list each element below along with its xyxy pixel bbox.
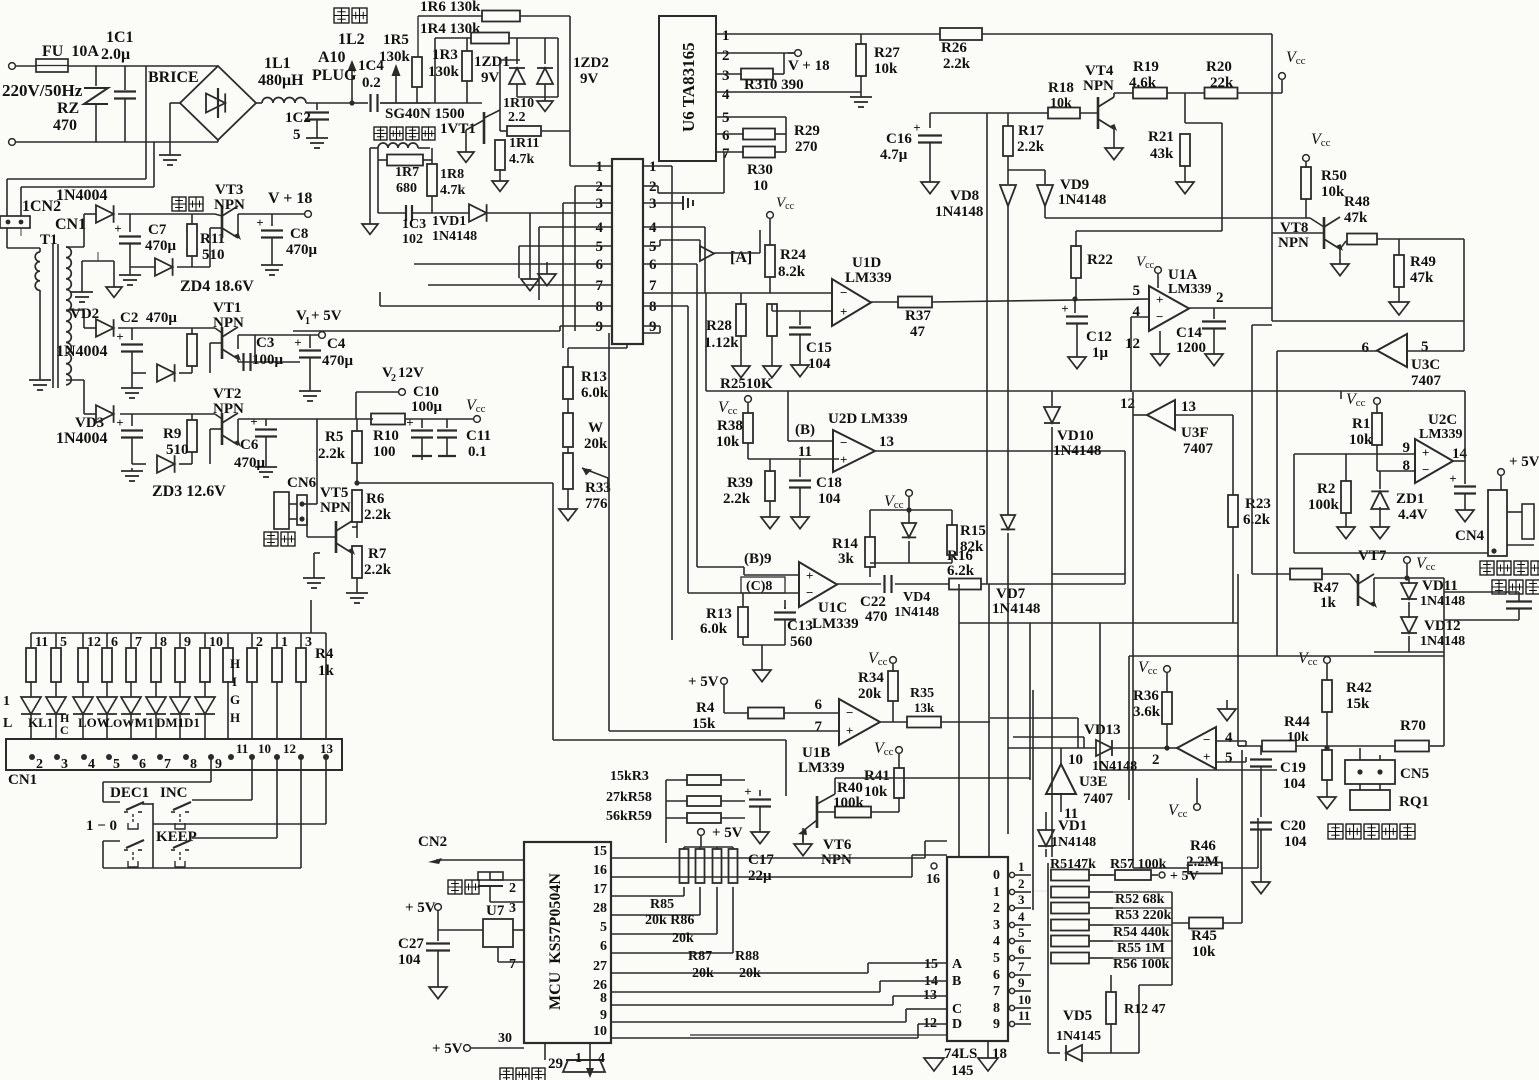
wire U3E in xyxy=(1060,794,1062,812)
svg-text:3k: 3k xyxy=(838,551,855,567)
diode VD10 xyxy=(1044,407,1101,857)
svg-text:+: + xyxy=(1061,301,1068,316)
label Vcc U1A xyxy=(1136,254,1155,271)
wire Lpin7 xyxy=(428,284,612,286)
node Vcc top right xyxy=(1279,49,1306,79)
wire R13b C13 join xyxy=(743,645,785,682)
svg-text:6.0k: 6.0k xyxy=(581,385,609,401)
node Vcc R38 xyxy=(718,396,751,417)
svg-text:LM339: LM339 xyxy=(812,616,859,632)
svg-text:−: − xyxy=(1203,732,1210,747)
svg-text:20k: 20k xyxy=(584,436,608,452)
svg-text:1: 1 xyxy=(575,1051,582,1066)
svg-text:NPN: NPN xyxy=(213,315,244,331)
resistor 1R5 130k xyxy=(379,32,422,103)
node +5V pin30 xyxy=(432,1031,524,1057)
svg-text:R53 220k: R53 220k xyxy=(1115,908,1172,923)
svg-text:27kR58: 27kR58 xyxy=(606,790,652,805)
svg-text:+: + xyxy=(406,415,413,430)
IC U7b xyxy=(483,903,524,947)
svg-text:R7: R7 xyxy=(368,546,387,562)
capacitor C5 470u xyxy=(116,414,143,481)
svg-text:R29: R29 xyxy=(794,123,820,139)
resistor R53 xyxy=(1051,903,1113,914)
svg-text:VT4: VT4 xyxy=(1085,63,1114,79)
svg-text:D: D xyxy=(952,1017,962,1032)
svg-text:R48: R48 xyxy=(1344,194,1370,210)
capacitor C4 470u xyxy=(294,335,353,401)
capacitor C8 470u xyxy=(256,214,317,275)
capacitor 1C1 2.0u xyxy=(101,29,136,142)
wire x985 xyxy=(986,113,988,584)
svg-text:C15: C15 xyxy=(806,340,832,356)
svg-text:G: G xyxy=(230,692,240,707)
svg-text:C20: C20 xyxy=(1280,818,1306,834)
svg-text:8.2k: 8.2k xyxy=(778,264,806,280)
op-amp U3E 7407 xyxy=(1046,752,1114,822)
resistor R4 element 8 xyxy=(200,633,223,682)
wire VT4 col xyxy=(1114,93,1133,97)
connector CN4 xyxy=(1488,490,1534,556)
svg-text:510: 510 xyxy=(166,442,189,458)
svg-text:2.2k: 2.2k xyxy=(364,562,392,578)
CN1 pin 301 xyxy=(298,754,304,760)
wire Rr 941 xyxy=(1089,940,1172,942)
node V+18 term2 xyxy=(788,50,830,74)
label current-sense xyxy=(374,127,435,140)
svg-text:W: W xyxy=(588,420,603,436)
svg-text:VD7: VD7 xyxy=(996,586,1026,602)
resistor R4 15k xyxy=(692,685,839,735)
label V2 12V xyxy=(382,365,424,384)
capacitor C13 560 xyxy=(774,600,813,650)
wire U6 pin1 xyxy=(716,28,940,44)
svg-text:4: 4 xyxy=(993,934,1000,949)
svg-text:R13: R13 xyxy=(706,606,732,622)
node Vcc R1 xyxy=(1346,391,1380,409)
svg-text:−: − xyxy=(840,285,847,300)
svg-text:0.2: 0.2 xyxy=(362,75,381,91)
svg-text:1200: 1200 xyxy=(1176,340,1206,356)
wire R15 bottom xyxy=(870,551,952,563)
svg-text:1N4148: 1N4148 xyxy=(1058,192,1106,208)
svg-text:FU 10A: FU 10A xyxy=(42,43,99,60)
wire R bus right2 xyxy=(1139,985,1172,1053)
diode VD2 1N4004 xyxy=(56,306,114,360)
svg-text:−: − xyxy=(1156,309,1163,324)
svg-text:+: + xyxy=(256,215,263,230)
svg-text:R19: R19 xyxy=(1133,59,1159,75)
wire mesh a xyxy=(959,622,1238,624)
wire 1R6 down xyxy=(569,16,571,166)
svg-text:5: 5 xyxy=(1018,925,1025,940)
wire mcu8 xyxy=(611,996,920,1005)
svg-text:8: 8 xyxy=(160,635,167,650)
svg-text:Vcc: Vcc xyxy=(1138,659,1158,677)
LED 6 xyxy=(146,682,166,739)
svg-text:H: H xyxy=(230,710,240,725)
svg-text:C10: C10 xyxy=(413,384,439,400)
svg-text:5: 5 xyxy=(596,239,604,255)
svg-text:4.4V: 4.4V xyxy=(1398,507,1428,523)
svg-text:6: 6 xyxy=(815,697,823,713)
resistor R58 27k xyxy=(606,790,745,806)
svg-text:Vcc: Vcc xyxy=(718,399,738,417)
svg-text:VD1: VD1 xyxy=(1058,818,1087,834)
svg-text:10k: 10k xyxy=(1321,184,1345,200)
svg-text:4: 4 xyxy=(598,1051,605,1066)
svg-text:104: 104 xyxy=(1283,776,1306,792)
resistor R5 2.2k xyxy=(318,419,362,483)
op-amp U2A xyxy=(1177,727,1233,769)
wire LED top rail xyxy=(31,600,326,739)
ground VT6 xyxy=(794,828,812,856)
wire sec to VD2row xyxy=(66,310,96,328)
svg-text:7: 7 xyxy=(135,635,142,650)
svg-text:1R6 130k: 1R6 130k xyxy=(420,0,481,15)
wire R14 R15 rail xyxy=(870,510,952,525)
svg-text:VD9: VD9 xyxy=(1060,177,1089,193)
svg-text:+: + xyxy=(1156,292,1163,307)
wire mesh b xyxy=(1029,623,1031,780)
svg-text:16: 16 xyxy=(593,863,607,878)
label pin R7 xyxy=(649,278,657,294)
node Vcc U1C xyxy=(884,490,912,513)
svg-text:MCU KS57P0504N: MCU KS57P0504N xyxy=(547,873,564,1010)
svg-text:13k: 13k xyxy=(914,700,935,715)
svg-text:47: 47 xyxy=(910,324,926,340)
wire U1B plus xyxy=(609,333,839,731)
svg-text:U7: U7 xyxy=(486,903,505,919)
resistor R29 270 xyxy=(743,117,820,155)
transistor VT4 xyxy=(1083,63,1117,131)
svg-text:9: 9 xyxy=(184,635,191,650)
svg-text:+ 5V: + 5V xyxy=(432,1041,463,1057)
svg-text:C12: C12 xyxy=(1086,329,1112,345)
svg-text:1N4148: 1N4148 xyxy=(432,229,477,244)
svg-text:R10: R10 xyxy=(373,428,399,444)
svg-text:R54 440k: R54 440k xyxy=(1113,925,1170,940)
svg-text:1N4004: 1N4004 xyxy=(56,187,108,204)
svg-text:R5: R5 xyxy=(325,429,343,445)
svg-text:12: 12 xyxy=(283,741,296,756)
wire V1 rail xyxy=(254,335,256,362)
wire box q2 xyxy=(1128,656,1130,800)
svg-text:R26: R26 xyxy=(941,40,967,56)
varistor RZ 470 xyxy=(53,66,108,142)
wire to node xyxy=(306,102,352,104)
resistor R39 2.2k xyxy=(723,459,779,529)
diode VD7 sym xyxy=(1001,515,1015,834)
svg-text:1N4004: 1N4004 xyxy=(56,430,108,447)
label R51 R57 xyxy=(1050,857,1167,872)
resistor R55 xyxy=(1051,936,1113,947)
svg-text:R40: R40 xyxy=(837,780,863,796)
thermistor RQ1 xyxy=(1350,784,1429,810)
svg-text:0: 0 xyxy=(993,868,1000,883)
capacitor C18 104 xyxy=(789,459,842,529)
svg-text:1C2: 1C2 xyxy=(285,110,311,126)
svg-text:4: 4 xyxy=(88,757,95,772)
wire mcu26 xyxy=(611,981,920,992)
wire U1A gnd12 xyxy=(1125,331,1169,366)
label pin L4 xyxy=(596,220,604,236)
wire mcu15 xyxy=(611,841,947,858)
CN1 pin 8 xyxy=(183,754,197,772)
svg-text:C17: C17 xyxy=(748,852,774,868)
wire key sw1 stubs xyxy=(142,803,153,805)
op-amp U2C LM339 xyxy=(1403,412,1468,483)
node Vcc VT7 xyxy=(1404,555,1436,581)
wire Lpin6 xyxy=(414,263,612,265)
connector middle block xyxy=(612,159,643,344)
diode VD1 1N4148 xyxy=(1038,812,1096,857)
label pin R8 xyxy=(649,299,657,315)
wire Rpin3 xyxy=(643,196,693,210)
svg-text:11: 11 xyxy=(798,444,812,460)
wire VT4 base row xyxy=(930,112,1048,114)
svg-text:130k: 130k xyxy=(379,49,411,65)
svg-text:Vcc: Vcc xyxy=(1346,391,1366,409)
buffer [A] xyxy=(700,246,752,266)
capacitor C14 1200 xyxy=(1176,308,1226,366)
svg-text:28: 28 xyxy=(593,901,607,916)
svg-text:L: L xyxy=(3,716,12,731)
resistor R22 xyxy=(1071,231,1113,299)
svg-text:+: + xyxy=(1203,749,1210,764)
wire AC line bottom xyxy=(15,141,218,143)
svg-text:10: 10 xyxy=(258,741,271,756)
wire U2A in4 xyxy=(1216,741,1246,746)
svg-text:+ 5V: + 5V xyxy=(1170,869,1199,884)
wire vert 640 xyxy=(639,659,641,661)
pin 74LS 2 xyxy=(993,892,1031,916)
pin 74LS 3 xyxy=(993,909,1031,933)
capacitor C15 104 xyxy=(789,311,832,377)
svg-text:1: 1 xyxy=(596,159,604,175)
wire U6 pin5 xyxy=(716,110,786,126)
op-amp U2D LM339 xyxy=(828,411,908,472)
wire Rpin9 xyxy=(643,326,660,333)
svg-text:+: + xyxy=(806,568,813,583)
svg-text:1N4148: 1N4148 xyxy=(1092,759,1137,774)
node C10 terminal xyxy=(356,384,443,419)
svg-text:R24: R24 xyxy=(780,247,806,263)
svg-text:2.0μ: 2.0μ xyxy=(101,46,130,63)
svg-text:145: 145 xyxy=(951,1063,974,1079)
svg-text:6: 6 xyxy=(139,757,146,772)
wire R4 down 252 xyxy=(251,682,253,739)
svg-text:C2 470μ: C2 470μ xyxy=(120,310,177,326)
label 1-0 xyxy=(86,818,117,834)
svg-text:RQ1: RQ1 xyxy=(1399,794,1429,810)
diode VD3 1N4004 xyxy=(56,405,114,447)
wire mcu10 xyxy=(611,1024,920,1038)
node Vcc terminal xyxy=(466,397,486,422)
label coil 1L2 xyxy=(334,8,367,48)
wire U2C out xyxy=(1453,391,1465,484)
svg-text:VD4: VD4 xyxy=(903,590,930,605)
svg-text:3: 3 xyxy=(993,918,1000,933)
node AC terminal 2 xyxy=(9,139,16,146)
svg-text:R4: R4 xyxy=(315,646,334,662)
ground VT8 e xyxy=(1331,249,1349,276)
label VD8 xyxy=(935,188,983,220)
svg-text:R52 68k: R52 68k xyxy=(1115,892,1165,907)
svg-text:2: 2 xyxy=(509,881,516,896)
svg-text:18: 18 xyxy=(992,1046,1007,1062)
svg-text:R55 1M: R55 1M xyxy=(1117,941,1165,956)
svg-text:9V: 9V xyxy=(580,71,599,87)
wire mesh f xyxy=(1051,391,1053,406)
svg-text:NPN: NPN xyxy=(320,500,351,516)
resistor R19 4.6k xyxy=(1129,59,1204,99)
wire AC line top xyxy=(15,65,218,67)
svg-text:10k: 10k xyxy=(874,61,898,77)
CN1 pin 3 xyxy=(54,754,68,772)
svg-text:22μ: 22μ xyxy=(748,868,772,884)
svg-text:R44: R44 xyxy=(1284,714,1310,730)
capacitor C22 470 xyxy=(860,575,949,625)
label MCU pin 28 xyxy=(593,901,607,916)
label fan xyxy=(264,532,295,546)
svg-text:R30: R30 xyxy=(747,162,773,178)
wire VT3 base xyxy=(210,228,222,267)
svg-text:VT1: VT1 xyxy=(213,300,241,316)
svg-text:T1: T1 xyxy=(40,232,58,248)
wire VT2 base xyxy=(210,429,222,464)
svg-text:NPN: NPN xyxy=(1083,78,1114,94)
resistor R4 element 1 xyxy=(26,633,48,682)
svg-text:6: 6 xyxy=(600,939,607,954)
node Vcc VT8 xyxy=(1303,131,1331,161)
svg-text:R14: R14 xyxy=(832,536,858,552)
svg-text:1: 1 xyxy=(1018,859,1025,874)
svg-text:R56 100k: R56 100k xyxy=(1113,957,1170,972)
CN1 pin 6 xyxy=(132,754,146,772)
svg-text:5: 5 xyxy=(1133,283,1141,299)
svg-text:470: 470 xyxy=(865,609,888,625)
label MCU pin 17 xyxy=(593,882,607,897)
resistor R10 100 xyxy=(371,414,474,461)
pin 74LS 0 xyxy=(993,859,1031,883)
wire bridge bottom xyxy=(217,140,219,142)
svg-text:82k: 82k xyxy=(960,539,984,555)
wire U1C out xyxy=(837,583,881,585)
svg-text:470μ: 470μ xyxy=(234,455,266,471)
svg-text:INC: INC xyxy=(160,785,188,801)
svg-text:8: 8 xyxy=(596,299,604,315)
svg-text:ZD1: ZD1 xyxy=(1396,491,1424,507)
wire mesh i xyxy=(958,623,960,857)
node Vcc R41 xyxy=(874,740,902,758)
resistor R6 2.2k xyxy=(352,480,392,538)
svg-text:1: 1 xyxy=(649,159,657,175)
svg-text:C11: C11 xyxy=(466,428,491,444)
svg-text:7: 7 xyxy=(596,278,604,294)
svg-text:4: 4 xyxy=(1225,730,1233,746)
svg-text:220V/50Hz: 220V/50Hz xyxy=(2,81,83,100)
CN1 pin 4 xyxy=(81,754,95,772)
resistor R14 3k xyxy=(832,525,875,577)
svg-text:C27: C27 xyxy=(398,936,424,952)
resistor R43 xyxy=(1318,750,1336,809)
transistor VT6 xyxy=(798,778,852,868)
svg-text:8: 8 xyxy=(190,757,197,772)
wire row12v xyxy=(120,413,215,415)
svg-text:1: 1 xyxy=(305,316,310,327)
svg-text:U3C: U3C xyxy=(1411,357,1440,373)
svg-text:30: 30 xyxy=(498,1031,512,1046)
svg-text:1N4148: 1N4148 xyxy=(1420,634,1465,649)
label VD4 xyxy=(894,590,939,620)
svg-text:+: + xyxy=(116,329,123,344)
resistor R4 element 5 xyxy=(126,633,142,682)
svg-text:7: 7 xyxy=(993,984,1000,999)
svg-text:−: − xyxy=(840,435,847,450)
svg-text:R42: R42 xyxy=(1346,680,1372,696)
svg-text:+: + xyxy=(1422,445,1429,460)
label HIGH col xyxy=(230,656,240,725)
svg-text:2: 2 xyxy=(1152,752,1160,768)
svg-text:1R11: 1R11 xyxy=(509,136,539,151)
svg-text:CN1: CN1 xyxy=(55,216,86,233)
connector CN1 xyxy=(6,739,342,788)
wire AC to CN xyxy=(21,142,154,216)
svg-text:4: 4 xyxy=(596,220,604,236)
svg-text:3: 3 xyxy=(649,196,657,212)
capacitor 1C2 5 xyxy=(285,103,329,148)
svg-text:9V: 9V xyxy=(481,70,500,86)
svg-text:V + 18: V + 18 xyxy=(788,58,830,74)
resistor R17 2.2k xyxy=(1003,113,1045,170)
wire U1A minus xyxy=(1131,317,1149,392)
resistor W 20k xyxy=(563,399,608,452)
key box1 left xyxy=(103,782,120,802)
resistor R48 47k xyxy=(1340,194,1464,249)
svg-text:+: + xyxy=(294,335,301,350)
LED 8 xyxy=(195,682,215,739)
svg-text:R2: R2 xyxy=(1317,481,1335,497)
wire bridge out xyxy=(256,102,262,104)
svg-text:8: 8 xyxy=(600,991,607,1006)
svg-text:20k: 20k xyxy=(692,966,714,981)
wire top box xyxy=(1341,390,1465,392)
wire coil arrow2 xyxy=(392,64,401,103)
svg-text:C3: C3 xyxy=(256,335,274,351)
label DEC1 INC xyxy=(110,785,188,801)
op-amp U3C 7407 xyxy=(1362,334,1442,389)
svg-text:+ 5V: + 5V xyxy=(712,825,743,841)
svg-text:+: + xyxy=(250,414,257,429)
wire vert x1272 xyxy=(1271,34,1273,321)
label pin L6 xyxy=(596,257,604,273)
svg-text:10: 10 xyxy=(593,1024,607,1039)
resistor R46 2.2M xyxy=(1188,818,1258,874)
svg-text:R47: R47 xyxy=(1313,580,1339,596)
svg-text:Vcc: Vcc xyxy=(874,740,894,758)
svg-text:A10: A10 xyxy=(318,49,346,66)
pot R33 776 xyxy=(563,447,611,512)
svg-text:9: 9 xyxy=(596,319,604,335)
CN1 pin 5 xyxy=(106,754,120,772)
svg-text:10: 10 xyxy=(753,178,768,194)
ground R27 xyxy=(850,92,872,107)
switch K1 xyxy=(124,840,144,867)
svg-text:7: 7 xyxy=(509,957,516,972)
svg-text:R5147k: R5147k xyxy=(1050,857,1096,872)
svg-text:7: 7 xyxy=(164,757,171,772)
